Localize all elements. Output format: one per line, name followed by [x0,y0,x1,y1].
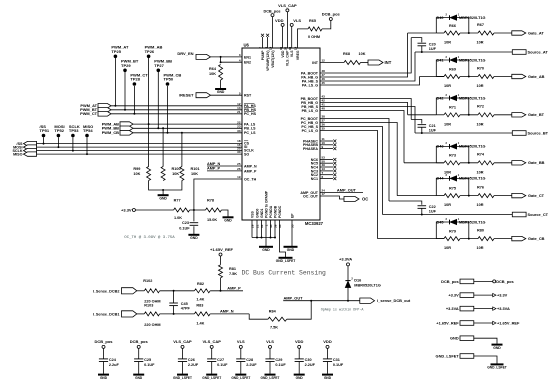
wire R81 to AMP_P node [220,278,222,291]
resistor R69 10R [444,67,460,88]
junction TP54 on MISO [86,153,88,155]
power DCB_pos at R65 [322,12,341,21]
pin PGNDC of U6 [278,205,282,228]
svg-text:10K: 10K [191,172,198,176]
diode D43 MBR0520LT1G [445,141,459,149]
label MBR0520LT1G of D16 [354,284,381,288]
no-connect stub pin NC4 [320,166,336,169]
svg-text:Source_CT: Source_CT [528,212,549,217]
net tie rect GND [460,336,474,341]
net tag /SS [24,141,37,145]
label I_sense_DCB_out [377,298,411,303]
svg-text:R82: R82 [197,282,204,286]
label +3.3VA tie right [497,306,510,311]
test point TP26 [145,45,163,58]
junction R101 on PWM_CB [181,132,183,134]
resistor R101 10K [180,167,200,181]
junction R81 bottom [220,290,222,292]
wire PWM_CT to U6 [111,113,242,115]
svg-text:GND_LSFET: GND_LSFET [487,366,507,370]
wire R75 lead [436,195,444,197]
pin INT of U6 [312,59,325,65]
ground after R78 [223,217,234,222]
svg-text:+3.3VA: +3.3VA [446,306,459,311]
wire D41 left leg [436,60,449,77]
pin GND0 of U6 [255,208,259,227]
wire +1.65V_REF to R81 [220,256,222,265]
label PWM_BT [80,107,97,112]
net tag Gate_CB [512,236,526,240]
resistor R71 10R [444,106,460,127]
net tag Source_AT [512,50,526,55]
pin EP of U6 [290,213,294,228]
svg-text:AMP_OUT: AMP_OUT [337,187,357,192]
label /RESET [179,93,194,98]
power DCB_pos at C24 [94,339,113,348]
svg-text:33: 33 [288,46,292,50]
pin AMP_P of U6 [237,167,257,173]
wire ground bus stem [265,238,267,247]
junction TP26 on PWM_AB [148,123,150,125]
svg-text:VLS_CAP: VLS_CAP [202,339,221,344]
wire C25 to ground [138,362,140,374]
label PWM_CT [80,111,97,116]
label AMP_P net [227,286,241,291]
svg-text:10R: 10R [477,246,484,250]
net tag INT [368,60,383,65]
pin PA_HS of U6 [237,102,256,108]
svg-text:VLS: VLS [266,339,274,344]
svg-text:VDD: VDD [275,18,284,23]
net tag /RESET [196,93,211,98]
label GND_LSFET tie [436,353,460,358]
svg-text:GND_LSFET: GND_LSFET [276,259,296,263]
wire C22 to source line [421,209,423,215]
pin PC_HB_G of U6 [301,119,325,125]
svg-text:AMP_P: AMP_P [244,169,257,173]
pin PC_HS of U6 [237,110,256,116]
label +1.65V_REF tie right [497,320,520,325]
junction C20 on source line [421,51,423,53]
wire R77 to node [190,209,206,211]
power +3.3VA tie point [493,307,496,310]
power VLS at U6 top [290,18,301,27]
resistor R68 10K [343,52,366,65]
svg-text:+1.65V_REF: +1.65V_REF [436,320,459,325]
pin NC5 of U6 [311,159,325,165]
capacitor C31 0.1UF [323,358,344,367]
resistor R82 1.4K [194,282,210,302]
svg-text:OC: OC [362,196,368,201]
wire D42 left leg [436,98,449,115]
svg-text:GND: GND [296,376,304,380]
capacitor C27 0.1UF [207,358,228,367]
junction ground bus [261,237,263,239]
net tag PWM_CB [120,131,133,136]
wire C26 to ground [182,362,184,374]
junction DRV_EN node [220,56,222,58]
wire pulldown gnd stem [162,190,164,195]
wire node to C23 [193,210,195,221]
svg-text:GND: GND [262,248,270,252]
pin PB_HB_G of U6 [301,99,325,105]
label MBR0520LT1G of D40 [459,16,486,20]
label MOSI net [13,145,22,149]
wire D41 right leg [457,60,469,77]
junction C21 on source line [421,132,423,134]
resistor R76 10R [477,185,495,207]
power +1.65V_REF tie point [493,321,496,324]
wire VLS_CAP to C26 [182,348,184,359]
pin NC4 of U6 [311,163,325,169]
svg-text:2.2UF: 2.2UF [305,363,316,367]
resistor R67 10R [477,23,495,45]
ground GND_LSFET below C26 [173,375,192,380]
pin SCLK of U6 [237,147,254,153]
wire MOSI to U6 [37,146,243,148]
svg-text:GND: GND [224,219,232,223]
pin PGNDB of U6 [273,205,277,228]
label +3.3VA tie [446,306,459,311]
svg-text:GND: GND [100,376,108,380]
label D45 [437,220,444,224]
label Source_AT [528,49,549,54]
pin PA_HB_S of U6 [302,77,325,83]
svg-text:Source_AT: Source_AT [528,49,549,54]
svg-text:1UF: 1UF [429,209,437,213]
wire PB_LS_G routing [320,111,404,163]
svg-text:C20: C20 [429,42,436,46]
label DRV_EN [177,51,193,56]
net tag PWM_AB [120,122,133,127]
svg-text:0.1UF: 0.1UF [144,363,155,367]
pin EN1 of U6 [239,53,251,59]
no-connect stub pin NC2 [320,173,336,176]
label AMP_OUT net [284,296,304,301]
label +3.3V tie right [497,293,508,298]
net tag Gate_AB [512,74,526,78]
wire C21 to source line [421,127,423,133]
wire R103 to node [160,313,195,315]
svg-text:R79: R79 [449,229,456,233]
wire AMP_N to R84 [249,314,268,319]
svg-text:35: 35 [322,127,326,131]
svg-text:DCB_pos: DCB_pos [94,339,113,344]
label Gate_CT [528,193,545,198]
label +1.65V_REF tie [436,320,459,325]
no-connect stub pin NC5 [320,162,336,165]
junction pulldown bus [162,189,164,191]
pin PUMP of U6 [259,46,265,60]
svg-text:10R: 10R [477,84,484,88]
net tag Gate_AT [512,31,526,35]
label +3.3V tie [448,293,459,298]
pin PA_BOOT of U6 [301,69,325,75]
label Gate_AT [528,30,544,35]
svg-text:TP27: TP27 [154,63,164,68]
pin PA_LS of U6 [237,120,256,126]
label MBR0520LT1G of D45 [459,220,486,224]
svg-text:R70: R70 [477,66,484,70]
svg-text:I_Sense_DCB2: I_Sense_DCB2 [93,289,120,293]
svg-text:0.1UF: 0.1UF [179,227,190,231]
wire PWM_BT to U6 [111,109,242,111]
wire AB row lead [436,76,444,78]
svg-text:R69: R69 [449,67,456,71]
resistor R79 10R [444,229,460,250]
net tag PWM_CT [98,112,111,117]
wire D43 right leg [457,146,469,162]
svg-text:TP50: TP50 [164,77,174,82]
svg-text:VDD: VDD [295,339,304,344]
wire +3.3V to R77 [135,209,173,211]
pin VLS of U6 [288,46,294,57]
wire GND_LSFET tie [474,356,497,364]
power VLS_CAP at C27 [202,339,221,348]
wire TP53 stem [72,137,74,150]
resistor R99 10K [133,167,150,181]
svg-text:PC_HS: PC_HS [244,112,257,116]
junction ground bus [270,237,272,239]
pin PC_BOOT of U6 [301,115,326,121]
resistor R77 1.0K [174,199,190,221]
svg-text:+1.65V_REF: +1.65V_REF [210,247,234,252]
svg-text:PWM_CT: PWM_CT [80,111,97,116]
label DCB_pos tie right [496,279,514,284]
svg-text:OpAmp is within DFP-A: OpAmp is within DFP-A [321,308,365,313]
wire VDD to C30 [298,348,300,359]
note OC_TH operating point [124,235,175,240]
svg-text:VREG: VREG [296,50,300,60]
wire R70 to gate tag [494,76,512,78]
wire R78 to ground [221,210,228,217]
net tie rect +3.3V [460,293,474,298]
svg-text:VDD: VDD [323,339,332,344]
junction D16 bottom [347,300,349,302]
svg-text:C45: C45 [181,302,188,306]
pin NC1 of U6 [311,175,324,181]
wire R75 to R76 [460,195,478,197]
svg-text:GND1: GND1 [260,208,264,218]
svg-text:I_sense_DCB_out: I_sense_DCB_out [377,298,411,303]
wire D44 right leg [457,178,469,195]
svg-text:R76: R76 [477,185,484,189]
resistor R66 10R [444,24,460,45]
svg-text:AMP_P: AMP_P [207,167,221,171]
label +3.3V [121,208,132,213]
svg-text:R71: R71 [449,106,456,110]
junction ground bus [256,237,258,239]
svg-text:TP29: TP29 [121,63,131,68]
wire VDD pin [282,26,284,48]
label Source_BT [528,130,549,135]
wire TP26 stem [148,58,150,124]
power VDD at C30 [295,339,304,348]
power +1.65V_REF at R81 [219,253,222,256]
wire C28 to ground [240,362,242,374]
power VLS_CAP at C26 [173,339,192,348]
svg-text:C29: C29 [275,358,282,362]
capacitor C20 1UF [418,42,437,51]
resistor R100 10K [161,167,180,181]
wire riser to Gate_AT row [408,32,437,34]
svg-text:Gate_CB: Gate_CB [528,236,545,241]
wire R74 to gate tag [494,162,512,164]
pin EN2 of U6 [239,58,251,64]
svg-text:C28: C28 [246,358,253,362]
svg-text:PGND to OPAMP: PGND to OPAMP [264,190,268,218]
net tag Gate_CT [512,193,526,197]
wire VDD to C31 [327,348,329,359]
svg-text:DC Bus Current Sensing: DC Bus Current Sensing [242,270,327,277]
label D41 [437,58,444,62]
capacitor C28 2.2UF [236,358,257,367]
svg-text:DCB_pos: DCB_pos [322,12,341,17]
svg-text:30: 30 [279,46,283,50]
svg-text:EN2: EN2 [244,61,251,65]
pin PB_LS_G of U6 [302,107,326,113]
wire R71 to R72 [460,114,478,116]
wire R71 lead [436,114,444,116]
ground below pulldowns [158,195,169,200]
capacitor C22 1UF [418,205,437,214]
svg-text:EN1: EN1 [244,55,251,59]
svg-text:10R: 10R [477,41,484,45]
wire TP50 stem [167,86,169,133]
wire DCB1 to R103 [137,313,145,315]
capacitor C25 0.1UF [134,358,155,367]
svg-text:PUMP: PUMP [261,50,265,61]
svg-text:PGNDC: PGNDC [278,205,282,218]
svg-text:10K: 10K [359,52,366,56]
label GND tie [450,336,459,341]
svg-text:VLS: VLS [237,339,245,344]
junction D42 node [468,114,470,116]
wire D45 left leg [436,222,449,239]
no-connect stub pin NC1 [320,177,336,180]
wire PC_LS_G routing [320,131,378,239]
capacitor C30 2.2UF [295,358,316,367]
net tie rect DCB_pos [460,279,474,284]
svg-text:U6: U6 [244,43,250,48]
svg-text:PGNDA: PGNDA [269,205,273,218]
svg-text:INT: INT [312,61,319,65]
svg-text:PB_LS_G: PB_LS_G [302,109,319,113]
svg-text:AMP_N: AMP_N [244,164,257,168]
svg-text:R74: R74 [477,153,485,157]
svg-text:GND: GND [493,346,501,350]
svg-text:R77: R77 [174,199,181,203]
svg-text:/RESET: /RESET [179,93,194,98]
net tie rect +1.65V_REF [460,321,474,326]
wire PA_HB_G routing [320,33,408,77]
svg-text:C25: C25 [144,358,151,362]
wire R79 to R80 [460,238,478,240]
svg-text:+3.3VA: +3.3VA [339,257,352,262]
wire R66 to R67 [460,32,478,34]
wire +3.3VA tie [474,308,493,310]
pin PA_HB_G of U6 [301,73,325,79]
svg-text:10R: 10R [444,122,451,126]
svg-text:TP52: TP52 [54,128,64,133]
wire AMP_OUT row [283,300,360,302]
pin PC_LS_G of U6 [302,127,326,133]
wire R73 lead [436,162,444,164]
svg-text:33: 33 [237,129,241,133]
wire D45 right leg [457,222,469,239]
wire PWM_AB to R99 [148,124,150,166]
label AMP_N net [220,309,234,314]
power +3.3V tie point [493,293,496,296]
capacitor C29 0.1UF [265,358,286,367]
net tag OC [344,197,359,202]
svg-text:MC33927: MC33927 [305,221,324,226]
svg-text:PB_LS: PB_LS [244,127,256,131]
pin AMP_OUT of U6 [300,189,325,195]
wire MISO to U6 [37,153,243,155]
svg-text:R101: R101 [191,167,200,171]
wire PA_BOOT routing [320,38,411,73]
svg-text:DCB_pos: DCB_pos [441,279,459,284]
test point TP51 [40,124,50,137]
resistor R81 7.5K [219,265,238,278]
wire R66 lead [436,32,444,34]
junction D44 node [468,195,470,197]
resistor R74 10R [477,153,495,175]
label D16 [354,279,361,283]
ground GND below C31 [322,375,333,380]
net tie rect +3.3VA [460,306,474,311]
ground GND_LSFET below C28 [231,375,250,380]
junction TP25 on PWM_AT [114,105,116,107]
svg-text:Gate_BT: Gate_BT [528,112,545,117]
wire D43 left leg [436,146,449,162]
diode D16 MBR0520LT1G [345,277,353,288]
svg-text:0.1UF: 0.1UF [217,363,228,367]
wire PWM_BB to U6 [133,127,242,129]
svg-text:47PF: 47PF [181,307,191,311]
wire PB_BOOT routing [320,99,411,120]
svg-text:MBR0520LT1G: MBR0520LT1G [354,284,381,288]
junction TP29 on PWM_BT [124,109,126,111]
junction EN2 node [220,61,222,63]
wire PC_BOOT routing [320,119,389,202]
pin PA_LS_G of U6 [302,81,325,87]
wire junction to EN2 drop [220,57,222,62]
wire VBAT to DCB_pos [272,17,274,48]
resistor R70 10R [477,66,495,88]
svg-text:DCB_pos: DCB_pos [496,279,514,284]
wire PWM_CB to R101 [181,133,183,167]
svg-text:PC_LS_G: PC_LS_G [302,129,319,133]
svg-text:AMP_P: AMP_P [227,286,241,291]
wire DCB_pos to C24 [103,348,105,359]
label PWM_AB [102,121,119,126]
wire PGNDC to GND_LSFET [280,238,286,258]
wire PWM_AB to U6 [133,123,242,125]
wire boot to C20 [411,38,422,43]
ground GND_LSFET below C29 [261,375,280,380]
svg-text:10R: 10R [477,122,484,126]
label D44 [437,177,445,181]
svg-text:Gate_AB: Gate_AB [528,74,545,79]
label MBR0520LT1G of D44 [459,177,486,181]
no-connect stub pin PHASEA [320,147,336,150]
wire R84 to AMP_OUT [287,301,312,320]
no-connect stub at U6 top [266,34,269,48]
wire PA_HB_S routing [320,52,415,81]
svg-text:C30: C30 [305,358,312,362]
